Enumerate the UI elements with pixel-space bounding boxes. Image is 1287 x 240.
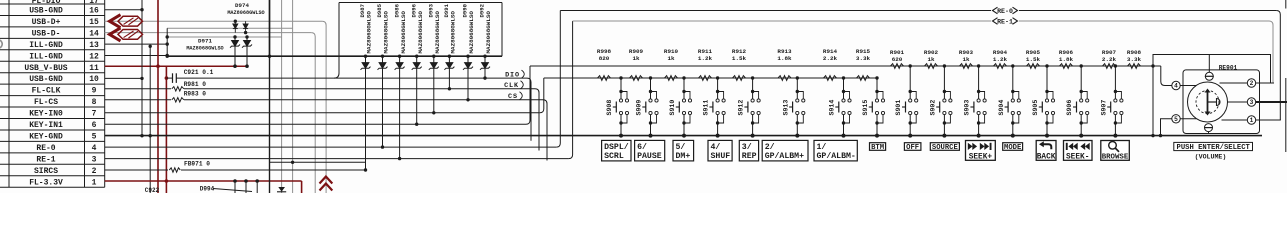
button SEEK+ — [966, 141, 996, 161]
svg-text:S912: S912 — [738, 100, 745, 116]
wire D986 anode — [399, 75, 401, 159]
svg-text:MAZ8068GWLSO: MAZ8068GWLSO — [366, 11, 373, 54]
svg-text:ILL-GND: ILL-GND — [29, 52, 63, 61]
switch S901 — [895, 64, 918, 137]
svg-text:16: 16 — [89, 7, 99, 16]
svg-text:7: 7 — [92, 110, 97, 119]
svg-text:FL-CS: FL-CS — [34, 98, 58, 107]
svg-text:C921 0.1: C921 0.1 — [184, 69, 214, 76]
wire D990 anode — [467, 75, 469, 100]
svg-text:1k: 1k — [632, 55, 640, 62]
svg-text:R910: R910 — [664, 48, 679, 55]
power arrow up (ILL) — [320, 177, 333, 191]
switch S915 — [862, 76, 885, 137]
svg-text:MAZ8068GWLSO: MAZ8068GWLSO — [417, 11, 424, 54]
svg-text:S908: S908 — [606, 100, 613, 116]
svg-text:S909: S909 — [636, 100, 643, 116]
svg-text:1/: 1/ — [817, 142, 827, 152]
wire D987 anode — [365, 75, 367, 170]
svg-text:1k: 1k — [927, 56, 935, 63]
pin 3 — [1247, 98, 1255, 106]
button BROWSE — [1101, 141, 1130, 161]
wire SIRCS pin2 — [105, 169, 168, 171]
svg-text:CLK: CLK — [504, 82, 519, 90]
switch S904 — [998, 64, 1021, 137]
switch S909 — [636, 76, 659, 137]
bus KEY-GND pin5 — [105, 135, 1262, 137]
button SEEK- — [1064, 141, 1093, 161]
button SOURCE — [930, 143, 959, 151]
svg-text:3.3k: 3.3k — [856, 55, 871, 62]
switch S908 — [606, 76, 629, 137]
svg-text:2: 2 — [1250, 80, 1254, 87]
svg-text:MAZ8068GWLSO: MAZ8068GWLSO — [186, 45, 223, 51]
svg-text:DIO: DIO — [505, 71, 520, 79]
svg-text:2.2k: 2.2k — [1102, 56, 1117, 63]
svg-text:BTM: BTM — [871, 144, 884, 152]
chain KEY-IN1 — [530, 65, 1161, 67]
svg-text:BROWSE: BROWSE — [1102, 154, 1129, 162]
button 2/GP/ALBM+ — [762, 140, 808, 161]
net label RE-1 inline — [993, 18, 1018, 25]
frame terminal top — [1208, 55, 1210, 73]
svg-text:S913: S913 — [782, 100, 789, 116]
svg-text:SEEK+: SEEK+ — [969, 154, 993, 162]
svg-text:R914: R914 — [823, 48, 838, 55]
resistor R981 — [172, 87, 184, 91]
svg-text:GP/ALBM-: GP/ALBM- — [817, 151, 856, 161]
svg-text:S902: S902 — [929, 100, 936, 116]
wire USB-GND pin10 — [105, 77, 142, 79]
svg-text:R915: R915 — [856, 48, 871, 55]
svg-text:R983 0: R983 0 — [184, 90, 207, 97]
zener D971b — [242, 37, 252, 50]
svg-text:1: 1 — [1250, 117, 1254, 124]
svg-text:MAZ8068GWLSO: MAZ8068GWLSO — [383, 11, 390, 54]
chain KEY-IN0 — [544, 77, 877, 79]
svg-text:S901: S901 — [895, 100, 902, 116]
svg-text:1k: 1k — [962, 56, 970, 63]
svg-text:BACK: BACK — [1037, 154, 1056, 162]
svg-text:4: 4 — [1174, 83, 1178, 90]
svg-text:(VOLUME): (VOLUME) — [1195, 153, 1227, 160]
wire ILL-GND pin13 — [105, 43, 168, 45]
svg-text:S910: S910 — [669, 100, 676, 116]
svg-text:USB-D+: USB-D+ — [32, 18, 61, 27]
svg-text:3: 3 — [92, 155, 97, 164]
wire pin4 — [1180, 85, 1196, 87]
switch S913 — [782, 76, 805, 137]
svg-text:1.5k: 1.5k — [732, 55, 747, 62]
zener D971a — [230, 37, 240, 50]
svg-text:SOURCE: SOURCE — [932, 144, 959, 152]
svg-text:CS: CS — [508, 93, 518, 101]
wire pin5 — [1180, 118, 1196, 120]
svg-text:MAZ8068GWLSO: MAZ8068GWLSO — [468, 11, 475, 54]
wire FL-3.3V pin1 (power) — [105, 180, 302, 182]
button DSPL/SCRL — [602, 140, 631, 161]
svg-text:S905: S905 — [1032, 100, 1039, 116]
svg-text:620: 620 — [892, 56, 903, 63]
svg-text:1k: 1k — [667, 55, 675, 62]
svg-text:1.8k: 1.8k — [1059, 56, 1074, 63]
button MODE — [1003, 143, 1023, 151]
svg-text:1: 1 — [92, 178, 97, 187]
off-page arrow USB-D- — [110, 28, 143, 41]
svg-text:OFF: OFF — [906, 144, 919, 152]
svg-text:SEEK-: SEEK- — [1066, 154, 1089, 162]
connector shell bump — [0, 40, 2, 48]
wire pin2 — [1256, 82, 1274, 84]
svg-text:R911: R911 — [698, 48, 713, 55]
svg-text:2/: 2/ — [765, 142, 775, 152]
svg-text:FL-CLK: FL-CLK — [32, 87, 61, 96]
vertical ILL-GND join — [166, 28, 168, 56]
svg-text:RE-1: RE-1 — [36, 155, 55, 164]
svg-text:4: 4 — [92, 144, 97, 153]
capacitor C921 — [172, 73, 174, 83]
svg-text:GP/ALBM+: GP/ALBM+ — [765, 151, 804, 161]
svg-text:S911: S911 — [703, 100, 710, 116]
svg-text:MAZ8068GWLSO: MAZ8068GWLSO — [485, 11, 492, 54]
switch S903 — [964, 64, 987, 137]
switch S911 — [703, 76, 726, 137]
svg-text:USB-GND: USB-GND — [29, 75, 63, 84]
svg-text:KEY-IN1: KEY-IN1 — [29, 121, 63, 130]
svg-text:MAZ8068GWLSO: MAZ8068GWLSO — [227, 10, 264, 16]
svg-text:1.2k: 1.2k — [698, 55, 713, 62]
bus ILL-GND horizontal — [167, 55, 502, 57]
svg-text:13: 13 — [89, 41, 99, 50]
wire ILL-GND pin12 — [105, 55, 168, 57]
resistor R983 — [172, 98, 184, 102]
svg-text:6/: 6/ — [637, 142, 647, 152]
svg-text:FL-3.3V: FL-3.3V — [29, 178, 63, 187]
wire KEY-IN0 pin7 — [105, 112, 540, 114]
vertical dim net b — [292, 0, 294, 193]
label PUSH ENTER/SELECT — [1174, 142, 1253, 150]
pin 2 — [1247, 79, 1255, 87]
wire R908 node to KEY-GND bus — [1152, 66, 1154, 136]
svg-text:PUSH ENTER/SELECT: PUSH ENTER/SELECT — [1177, 144, 1251, 152]
svg-text:R913: R913 — [777, 48, 792, 55]
button 1/GP/ALBM- — [814, 140, 857, 161]
svg-text:1.5k: 1.5k — [1026, 56, 1041, 63]
svg-text:12: 12 — [89, 52, 99, 61]
power vertical V-BUS b — [165, 66, 167, 193]
button BTM — [870, 143, 886, 151]
stubs below 3.3V rail — [234, 181, 236, 193]
wire FL-CLK net — [105, 88, 171, 90]
svg-text:R981 0: R981 0 — [184, 81, 207, 88]
svg-text:S907: S907 — [1100, 100, 1107, 116]
connector table CN (left) — [0, 0, 105, 187]
svg-text:S914: S914 — [829, 100, 836, 116]
svg-text:KEY-IN0: KEY-IN0 — [29, 110, 63, 119]
svg-text:1.2k: 1.2k — [993, 56, 1008, 63]
svg-text:D974: D974 — [235, 2, 249, 9]
svg-text:4/: 4/ — [711, 142, 721, 152]
svg-text:5: 5 — [1174, 116, 1178, 123]
svg-text:5/: 5/ — [676, 142, 686, 152]
svg-text:17: 17 — [89, 0, 99, 6]
net label RE-0 inline — [993, 7, 1018, 14]
button 3/REP — [739, 140, 758, 161]
wire D993 anode — [433, 75, 435, 113]
switch S906 — [1066, 64, 1089, 137]
svg-text:REP: REP — [742, 152, 757, 161]
switch S907 — [1100, 64, 1123, 137]
vertical USB-GND bus — [141, 0, 143, 136]
switch S905 — [1032, 64, 1055, 137]
wire pin1 — [1256, 119, 1281, 121]
switch S914 — [829, 76, 852, 137]
button OFF — [904, 143, 921, 151]
vertical wire x150 — [149, 46, 151, 193]
switch S910 — [669, 76, 692, 137]
wire FL-CS net — [105, 99, 171, 101]
svg-text:2.2k: 2.2k — [823, 55, 838, 62]
frame edge right — [1285, 0, 1287, 9]
svg-text:MAZ8068GWLSO: MAZ8068GWLSO — [450, 11, 457, 54]
svg-text:9: 9 — [92, 87, 97, 96]
pin 4 — [1172, 81, 1180, 89]
svg-text:PAUSE: PAUSE — [637, 152, 662, 161]
svg-text:USB-GND: USB-GND — [29, 7, 63, 16]
svg-text:D994: D994 — [200, 186, 215, 193]
wire ILL net B — [167, 36, 282, 38]
svg-text:15: 15 — [89, 18, 99, 27]
svg-text:5: 5 — [92, 132, 97, 141]
wire FL-DIO net — [166, 77, 172, 79]
wire USB-D+ pin15 — [105, 20, 322, 22]
svg-text:14: 14 — [89, 29, 99, 38]
svg-text:DM+: DM+ — [676, 152, 691, 161]
svg-text:S906: S906 — [1066, 100, 1073, 116]
off-page arrow USB-D+ — [110, 15, 143, 28]
wire USB_V-BUS pin11 (power, dark red) — [105, 65, 247, 67]
rotary encoder RE901 — [1183, 65, 1260, 134]
ferrite bead FB971 — [169, 168, 180, 172]
svg-text:3: 3 — [1250, 99, 1254, 106]
wire D991 anode — [448, 75, 450, 89]
svg-text:FL-DIO: FL-DIO — [32, 0, 61, 6]
svg-text:S915: S915 — [862, 100, 869, 116]
svg-text:RE-0: RE-0 — [997, 8, 1013, 15]
wire R908 node to encoder pin2 (over the top) — [1151, 64, 1154, 67]
svg-text:DSPL/: DSPL/ — [604, 142, 629, 152]
pin 1 — [1247, 116, 1255, 124]
svg-text:RE901: RE901 — [1219, 65, 1238, 72]
svg-text:MAZ8068GWLSO: MAZ8068GWLSO — [400, 11, 407, 54]
wire D992 anode — [484, 75, 486, 78]
svg-text:S903: S903 — [964, 100, 971, 116]
svg-text:KEY-GND: KEY-GND — [29, 132, 63, 141]
wire USB-D- pin14 — [105, 32, 312, 34]
svg-text:ILL-GND: ILL-GND — [29, 41, 63, 50]
frame terminal bottom — [1208, 132, 1210, 134]
switch S902 — [929, 64, 952, 137]
svg-text:10: 10 — [89, 75, 99, 84]
power vertical V-BUS a — [157, 0, 159, 193]
svg-text:S904: S904 — [998, 100, 1005, 116]
key diode array box — [339, 2, 502, 4]
button 5/DM+ — [673, 140, 694, 161]
svg-text:RE-1: RE-1 — [997, 18, 1013, 25]
svg-text:SHUF: SHUF — [711, 152, 731, 161]
svg-text:R909: R909 — [629, 48, 644, 55]
svg-text:C922: C922 — [145, 187, 160, 193]
vertical dim net a — [281, 0, 283, 193]
wire dim interconnect — [270, 161, 366, 163]
svg-text:3.3k: 3.3k — [1127, 56, 1142, 63]
button 4/SHUF — [708, 140, 732, 161]
svg-text:3/: 3/ — [742, 142, 752, 152]
svg-text:6: 6 — [92, 121, 97, 130]
thick vertical to ILL bus — [269, 0, 271, 56]
wire D996 anode — [416, 75, 418, 124]
wire KEY-IN1 pin6 — [105, 123, 526, 125]
svg-text:SIRCS: SIRCS — [34, 167, 58, 176]
wire pin3 (thick, off-page) — [1256, 101, 1287, 103]
switch S912 — [738, 76, 761, 137]
wire RE-1 top (gray) — [573, 20, 991, 22]
svg-text:R998: R998 — [597, 48, 612, 55]
svg-text:D971: D971 — [198, 38, 212, 45]
wire D971 anodes to V-BUS — [234, 50, 236, 66]
svg-text:1.8k: 1.8k — [777, 55, 792, 62]
svg-text:R912: R912 — [732, 48, 747, 55]
svg-text:SCRL: SCRL — [604, 152, 624, 161]
pin 5 — [1172, 115, 1180, 123]
svg-text:8: 8 — [92, 98, 97, 107]
button BACK — [1036, 141, 1056, 161]
svg-text:MODE: MODE — [1004, 144, 1022, 152]
wire USB-GND pin16 — [105, 9, 142, 11]
wire RE-0 top — [560, 10, 991, 12]
wire RE-1 pin3 — [105, 158, 569, 160]
svg-text:USB-D-: USB-D- — [32, 29, 61, 38]
svg-text:2: 2 — [92, 167, 97, 176]
svg-text:11: 11 — [89, 64, 99, 73]
svg-text:USB_V-BUS: USB_V-BUS — [24, 64, 67, 73]
wire RE-0 pin4 — [105, 146, 557, 148]
button 6/PAUSE — [635, 140, 665, 161]
svg-text:FB971 0: FB971 0 — [184, 161, 210, 168]
svg-text:RE-0: RE-0 — [36, 144, 55, 153]
svg-text:MAZ8068GWLSO: MAZ8068GWLSO — [434, 11, 441, 54]
wire D985 anode — [382, 75, 384, 147]
wire ILL net A — [167, 27, 293, 29]
svg-text:820: 820 — [599, 55, 610, 62]
